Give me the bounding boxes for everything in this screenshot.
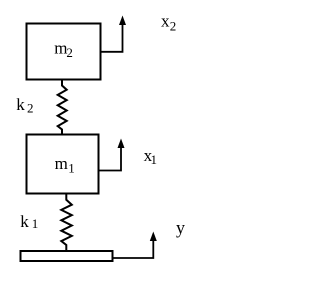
- label m1: [55, 154, 75, 175]
- mass block m1: [27, 135, 99, 194]
- spring k1: [61, 195, 72, 251]
- label m2: [54, 38, 73, 59]
- svg-text:k: k: [20, 212, 29, 231]
- label x2: [161, 11, 176, 33]
- svg-text:2: 2: [66, 45, 73, 60]
- base plate: [21, 251, 113, 261]
- label x1: [144, 146, 157, 167]
- svg-text:1: 1: [68, 161, 75, 176]
- svg-text:x: x: [161, 11, 170, 30]
- svg-text:k: k: [16, 95, 25, 114]
- wire arrow y: [113, 232, 157, 259]
- mass block m2: [27, 24, 101, 80]
- label k2: [16, 95, 33, 116]
- spring k2: [58, 81, 67, 135]
- svg-text:y: y: [176, 218, 185, 238]
- label k1: [20, 212, 38, 231]
- svg-text:1: 1: [32, 216, 39, 231]
- svg-text:2: 2: [27, 101, 34, 116]
- wire arrow x2: [101, 16, 127, 52]
- wire arrow x1: [99, 139, 125, 171]
- svg-text:m: m: [55, 154, 68, 173]
- svg-text:2: 2: [170, 18, 177, 33]
- svg-text:1: 1: [151, 152, 158, 167]
